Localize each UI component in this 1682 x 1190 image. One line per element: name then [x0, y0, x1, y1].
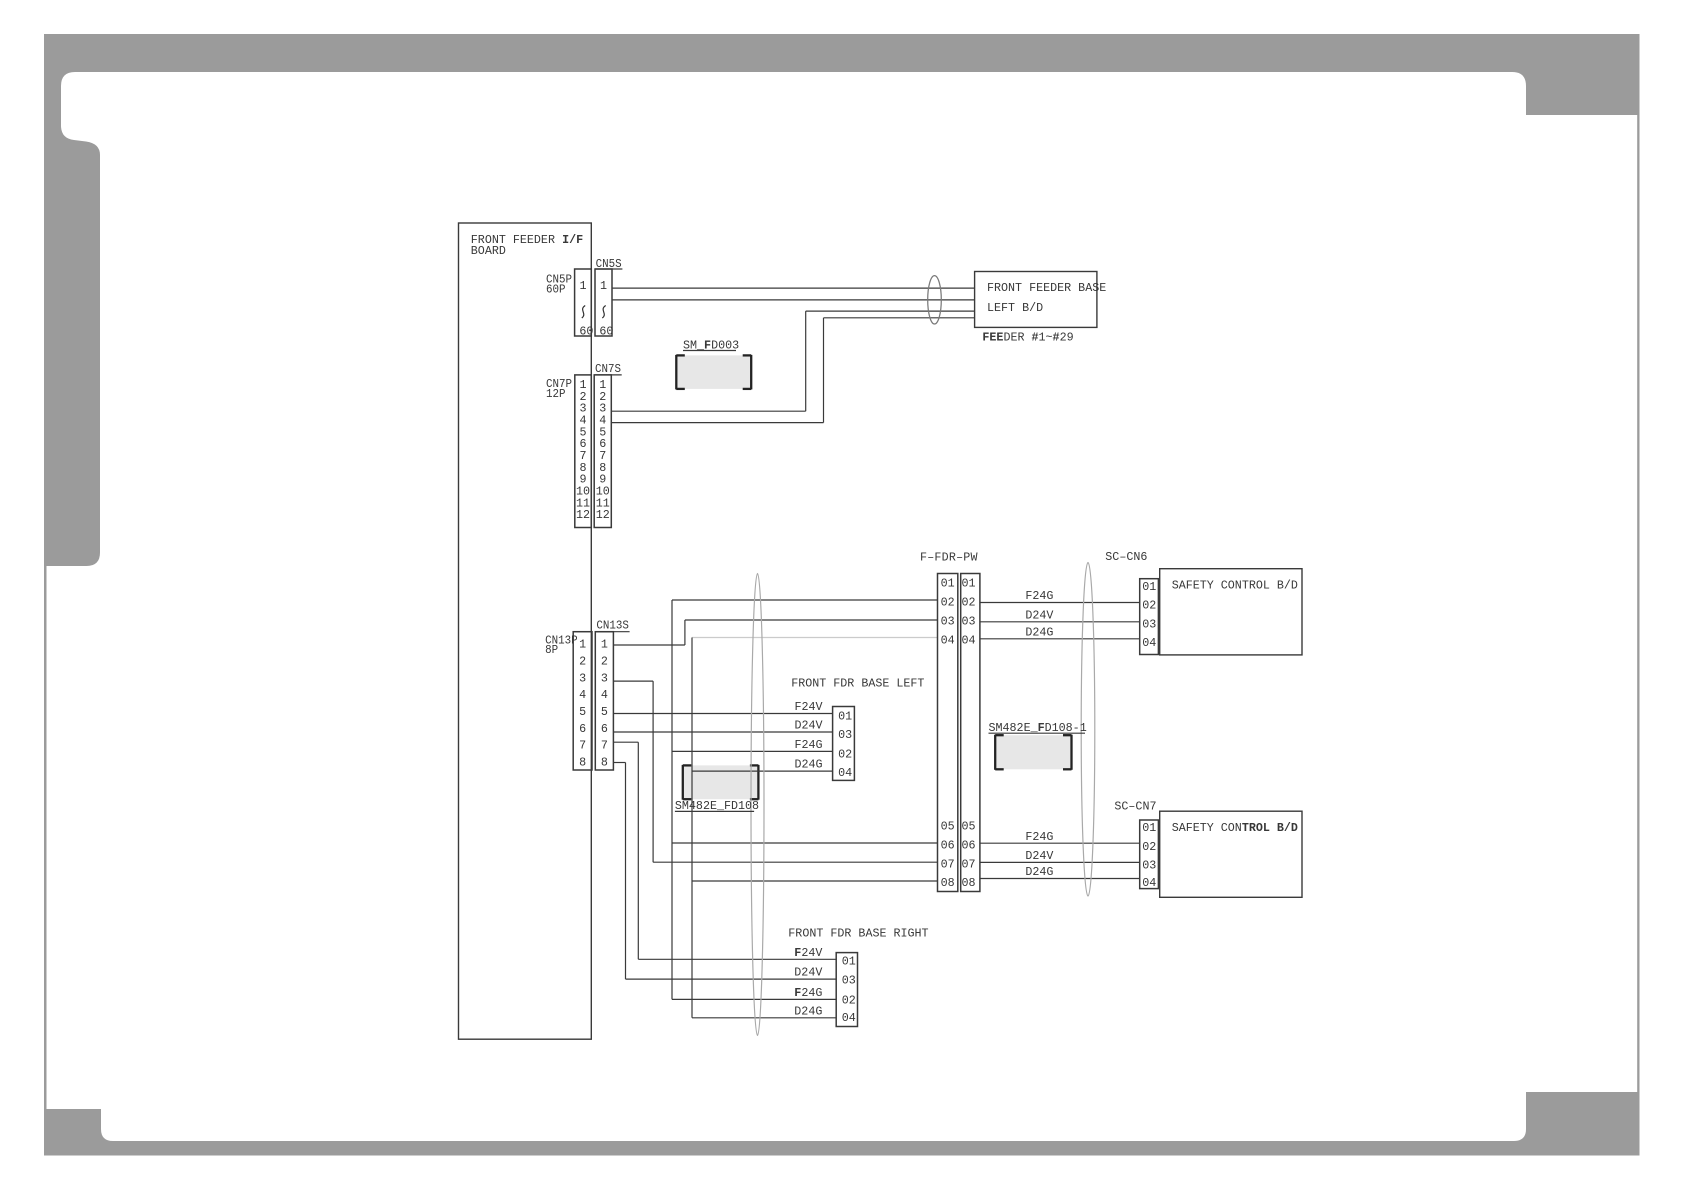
svg-text:04: 04 — [842, 1011, 856, 1025]
svg-text:60P: 60P — [546, 283, 566, 297]
svg-text:04: 04 — [838, 766, 852, 780]
svg-text:03: 03 — [838, 728, 852, 742]
svg-text:SC–CN7: SC–CN7 — [1114, 799, 1156, 813]
svg-text:SM_FD003: SM_FD003 — [683, 338, 739, 352]
svg-text:7: 7 — [601, 739, 608, 753]
svg-text:04: 04 — [1142, 636, 1156, 650]
svg-text:SC–CN6: SC–CN6 — [1105, 550, 1147, 564]
svg-text:7: 7 — [579, 739, 586, 753]
svg-text:03: 03 — [941, 615, 955, 629]
svg-text:1: 1 — [600, 279, 607, 293]
svg-text:F24V: F24V — [795, 700, 823, 714]
svg-text:07: 07 — [962, 857, 976, 871]
svg-text:60: 60 — [579, 325, 593, 339]
svg-text:8: 8 — [579, 756, 586, 770]
svg-text:D24G: D24G — [794, 1004, 822, 1018]
svg-text:F–FDR–PW: F–FDR–PW — [920, 551, 978, 565]
svg-text:01: 01 — [1142, 821, 1156, 835]
svg-text:06: 06 — [962, 838, 976, 852]
svg-text:D24G: D24G — [1025, 865, 1053, 879]
svg-text:F24G: F24G — [1025, 589, 1053, 603]
svg-text:5: 5 — [601, 705, 608, 719]
svg-text:60: 60 — [599, 325, 613, 339]
svg-text:03: 03 — [962, 615, 976, 629]
svg-text:02: 02 — [1142, 840, 1156, 854]
svg-text:3: 3 — [601, 671, 608, 685]
svg-text:03: 03 — [842, 974, 856, 988]
svg-text:01: 01 — [941, 577, 955, 591]
svg-text:01: 01 — [842, 955, 856, 969]
svg-text:D24V: D24V — [795, 719, 823, 733]
svg-text:F24G: F24G — [1025, 830, 1053, 844]
svg-text:FEEDER #1~#29: FEEDER #1~#29 — [982, 330, 1073, 344]
svg-text:BOARD: BOARD — [471, 244, 506, 258]
svg-text:05: 05 — [941, 819, 955, 833]
svg-text:2: 2 — [579, 654, 586, 668]
svg-text:LEFT B/D: LEFT B/D — [987, 301, 1043, 315]
svg-text:F24G: F24G — [794, 986, 822, 1000]
svg-text:04: 04 — [941, 634, 955, 648]
svg-text:02: 02 — [842, 993, 856, 1007]
svg-text:12: 12 — [596, 508, 610, 522]
svg-text:6: 6 — [579, 722, 586, 736]
svg-text:01: 01 — [1142, 580, 1156, 594]
svg-text:FRONT FEEDER BASE: FRONT FEEDER BASE — [987, 281, 1106, 295]
svg-text:1: 1 — [579, 638, 586, 652]
svg-text:F24G: F24G — [795, 738, 823, 752]
svg-text:CN7S: CN7S — [595, 362, 621, 376]
svg-text:D24V: D24V — [1025, 608, 1053, 622]
svg-text:02: 02 — [941, 596, 955, 610]
svg-text:SAFETY CONTROL B/D: SAFETY CONTROL B/D — [1172, 821, 1298, 835]
svg-text:03: 03 — [1142, 617, 1156, 631]
svg-text:4: 4 — [601, 688, 608, 702]
svg-text:07: 07 — [941, 857, 955, 871]
svg-text:2: 2 — [601, 654, 608, 668]
svg-text:02: 02 — [962, 596, 976, 610]
svg-text:D24G: D24G — [1025, 625, 1053, 639]
svg-text:1: 1 — [601, 638, 608, 652]
svg-text:08: 08 — [941, 876, 955, 890]
svg-text:6: 6 — [601, 722, 608, 736]
svg-text:SM482E_FD108-1: SM482E_FD108-1 — [989, 721, 1087, 735]
svg-text:1: 1 — [579, 279, 586, 293]
svg-text:06: 06 — [941, 838, 955, 852]
svg-text:04: 04 — [1142, 876, 1156, 890]
svg-text:CN5S: CN5S — [596, 257, 622, 271]
svg-text:12P: 12P — [546, 387, 566, 401]
svg-text:4: 4 — [579, 688, 586, 702]
svg-text:F24V: F24V — [794, 946, 822, 960]
svg-text:12: 12 — [576, 508, 590, 522]
svg-text:01: 01 — [962, 577, 976, 591]
svg-text:CN13S: CN13S — [596, 619, 629, 633]
svg-text:8P: 8P — [545, 643, 558, 657]
svg-text:FRONT FDR BASE LEFT: FRONT FDR BASE LEFT — [791, 677, 924, 691]
svg-text:3: 3 — [579, 671, 586, 685]
svg-text:SAFETY CONTROL B/D: SAFETY CONTROL B/D — [1172, 579, 1298, 593]
svg-text:01: 01 — [838, 710, 852, 724]
svg-text:D24G: D24G — [795, 758, 823, 772]
svg-text:03: 03 — [1142, 859, 1156, 873]
svg-text:8: 8 — [601, 756, 608, 770]
svg-text:D24V: D24V — [1025, 849, 1053, 863]
svg-text:5: 5 — [579, 705, 586, 719]
svg-text:FRONT FDR BASE RIGHT: FRONT FDR BASE RIGHT — [788, 927, 928, 941]
svg-text:D24V: D24V — [794, 966, 822, 980]
svg-text:05: 05 — [962, 819, 976, 833]
svg-text:I/F: I/F — [562, 233, 583, 247]
svg-text:08: 08 — [962, 876, 976, 890]
svg-text:04: 04 — [962, 634, 976, 648]
svg-text:SM482E_FD108: SM482E_FD108 — [675, 799, 759, 813]
svg-text:02: 02 — [838, 748, 852, 762]
svg-text:02: 02 — [1142, 599, 1156, 613]
